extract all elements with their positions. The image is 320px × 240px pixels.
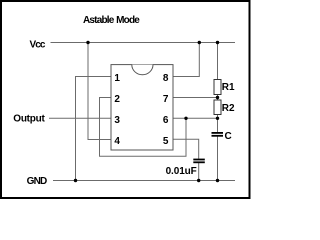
- junction Vcc/pin4: [86, 41, 89, 44]
- junction GND/pin1: [74, 179, 77, 182]
- wire Vcc rail: [51, 42, 236, 44]
- wire pin 5 to 0.01uF cap: [173, 139, 199, 158]
- wire pin 2 to pin 6 net: [100, 98, 187, 157]
- capacitor C: [212, 132, 224, 137]
- junction R2/C/pin6: [216, 117, 219, 120]
- svg-text:Output: Output: [13, 114, 45, 125]
- svg-text:5: 5: [163, 136, 169, 147]
- svg-text:R2: R2: [222, 103, 235, 114]
- svg-text:8: 8: [163, 73, 169, 84]
- svg-text:R1: R1: [222, 82, 235, 93]
- wire Output to pin 3: [49, 117, 111, 119]
- svg-text:7: 7: [163, 94, 169, 105]
- wire pin 6 to R2/C junction: [173, 117, 218, 119]
- border frame: [1, 1, 250, 198]
- wire C bottom to GND: [217, 136, 219, 181]
- junction Vcc/pin8: [198, 41, 201, 44]
- svg-text:0.01uF: 0.01uF: [166, 166, 197, 177]
- wire pin 1 to GND: [76, 77, 112, 181]
- svg-text:4: 4: [114, 136, 120, 147]
- resistor R1: [214, 80, 221, 95]
- svg-text:Astable Mode: Astable Mode: [83, 15, 140, 26]
- wire R1 bottom to R2 top: [217, 95, 219, 101]
- svg-text:1: 1: [114, 73, 120, 84]
- wire 0.01uF cap to GND: [198, 163, 200, 181]
- wire pin 8 to Vcc: [173, 43, 199, 77]
- svg-text:6: 6: [163, 115, 169, 126]
- op IC U1 555 timer body: [111, 65, 173, 150]
- wire pin 7 to R1/R2 junction: [173, 97, 218, 99]
- svg-text:C: C: [225, 131, 232, 142]
- junction Vcc/R1: [216, 41, 219, 44]
- svg-text:3: 3: [114, 115, 120, 126]
- junction pin2 net/pin6: [184, 117, 187, 120]
- svg-text:Vcc: Vcc: [30, 40, 46, 51]
- svg-text:2: 2: [114, 94, 120, 105]
- wire R2 bottom to C top: [217, 115, 219, 133]
- capacitor 0.01uF: [193, 159, 205, 164]
- junction R1/R2/pin7: [216, 96, 219, 99]
- wire Vcc to R1 top: [217, 43, 219, 80]
- svg-text:GND: GND: [27, 176, 47, 187]
- junction GND/0.01uF: [197, 179, 200, 182]
- resistor R2: [214, 100, 221, 115]
- junction GND/C: [216, 179, 219, 182]
- wire Vcc to pin 4 (vertical + horizontal): [88, 43, 111, 140]
- wire GND rail: [53, 180, 235, 182]
